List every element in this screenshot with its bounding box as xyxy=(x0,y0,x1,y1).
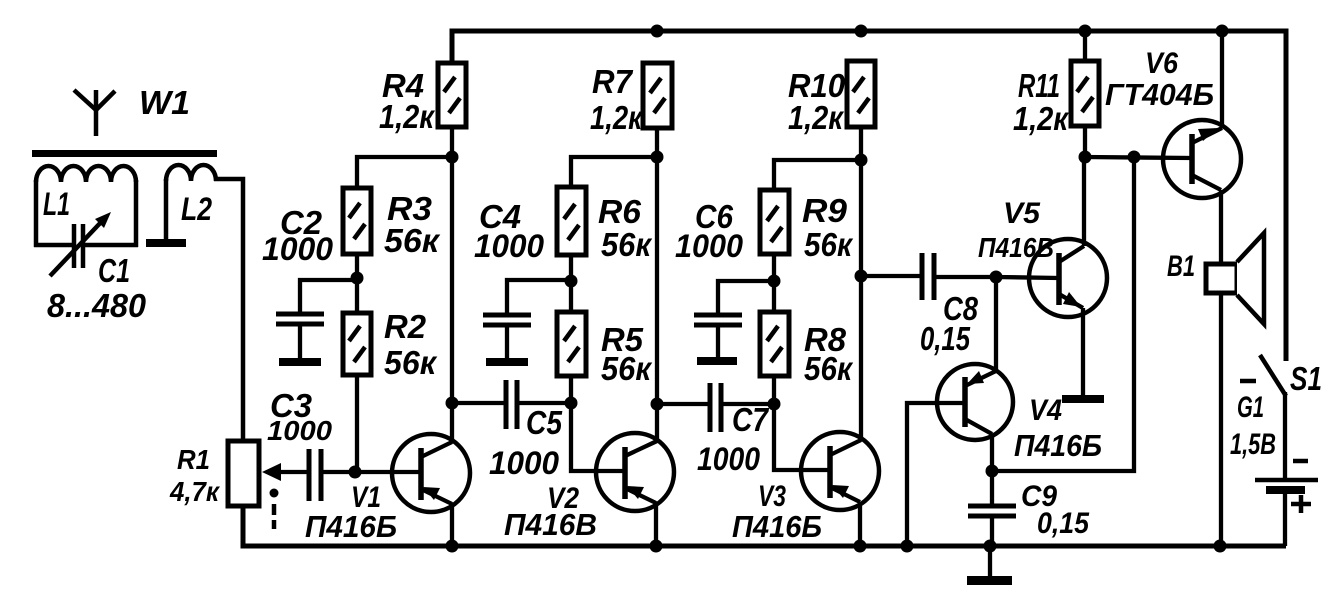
ground below rail xyxy=(988,546,992,577)
svg-text:R11: R11 xyxy=(1018,67,1060,104)
capacitor C4 1000 (to ground) xyxy=(507,280,571,313)
svg-text:ГТ404Б: ГТ404Б xyxy=(1105,77,1214,112)
capacitor C7 1000 (coupling) xyxy=(657,402,708,406)
loudspeaker B1 xyxy=(1206,264,1237,293)
transistor V2 P416B xyxy=(596,433,674,511)
capacitor C8 0,15 (coupling) xyxy=(861,274,920,278)
svg-text:56к: 56к xyxy=(384,222,441,259)
svg-text:1,2к: 1,2к xyxy=(590,99,644,136)
svg-text:56к: 56к xyxy=(601,226,653,263)
transistor V3 P416B xyxy=(801,432,879,510)
svg-text:V4: V4 xyxy=(1029,394,1062,427)
svg-text:C1: C1 xyxy=(98,252,130,289)
ground under L2 xyxy=(146,239,186,247)
capacitor C9 0,15 xyxy=(990,471,994,504)
ground under C6 xyxy=(697,357,737,365)
svg-text:П416Б: П416Б xyxy=(305,509,397,544)
svg-text:R1: R1 xyxy=(177,444,210,475)
capacitor C3 1000 (coupling) xyxy=(309,449,321,501)
ground under C4 xyxy=(486,358,528,366)
svg-text:П416В: П416В xyxy=(978,232,1054,263)
ground under V5 xyxy=(1081,308,1085,397)
capacitor C2 1000 (to ground) xyxy=(300,280,357,313)
svg-text:V5: V5 xyxy=(1003,197,1041,230)
resistor R3 56k xyxy=(343,188,371,254)
resistor R9 56k xyxy=(760,190,789,254)
svg-text:56к: 56к xyxy=(804,350,854,387)
battery G1 1,5V xyxy=(1240,379,1256,384)
wire base V6 xyxy=(1085,157,1192,158)
svg-text:56к: 56к xyxy=(384,344,438,381)
wire to base V2 xyxy=(571,403,625,471)
switch S1 xyxy=(1260,355,1286,396)
svg-text:П416В: П416В xyxy=(504,507,597,542)
capacitor C5 1000 (coupling) xyxy=(452,401,504,405)
resistor R5 56k xyxy=(557,312,586,376)
svg-text:C7: C7 xyxy=(732,401,769,438)
wire collector line V2 xyxy=(655,128,659,441)
potentiometer R1 4,7k xyxy=(228,441,259,506)
svg-text:R7: R7 xyxy=(592,63,634,100)
resistor R4 1,2k xyxy=(438,63,466,127)
resistor R11 1,2k xyxy=(1071,61,1099,126)
resistor R2 56k xyxy=(343,313,371,375)
wire V4 collector to V6 base line xyxy=(992,157,1134,471)
ground under C2 xyxy=(279,358,321,366)
node base V1 xyxy=(355,470,421,474)
svg-text:1000: 1000 xyxy=(489,445,559,481)
svg-text:C5: C5 xyxy=(526,404,563,441)
wire top supply rail xyxy=(452,31,1286,361)
svg-text:1,5В: 1,5В xyxy=(1230,428,1276,461)
svg-text:V6: V6 xyxy=(1145,47,1178,80)
svg-text:П416Б: П416Б xyxy=(732,509,822,544)
wire collector line V3 xyxy=(859,127,863,440)
wire to base V3 xyxy=(774,404,830,470)
resistor R7 1,2k xyxy=(643,63,672,128)
svg-text:1000: 1000 xyxy=(267,415,332,446)
svg-text:1000: 1000 xyxy=(675,228,743,264)
ferrite rod core xyxy=(32,150,217,157)
svg-text:L1: L1 xyxy=(43,186,70,222)
resistor R8 56k xyxy=(760,312,789,376)
wire bottom common rail xyxy=(243,506,1286,546)
inductor L2 xyxy=(166,165,243,442)
svg-text:1,2к: 1,2к xyxy=(788,99,845,136)
variable capacitor C1 xyxy=(50,219,104,276)
svg-text:R9: R9 xyxy=(802,192,848,229)
transistor V6 GT404B xyxy=(1163,120,1241,198)
svg-text:1,2к: 1,2к xyxy=(379,98,436,135)
svg-text:0,15: 0,15 xyxy=(920,320,970,357)
antenna W1 xyxy=(74,90,115,136)
svg-text:56к: 56к xyxy=(804,226,854,263)
svg-text:G1: G1 xyxy=(1237,391,1264,424)
resistor R10 1,2k xyxy=(847,61,875,127)
svg-text:1,2к: 1,2к xyxy=(1013,100,1070,137)
svg-text:R6: R6 xyxy=(598,193,642,230)
svg-text:8...480: 8...480 xyxy=(47,287,147,324)
transistor V5 P416B xyxy=(1029,239,1107,317)
svg-text:1000: 1000 xyxy=(262,231,333,267)
svg-text:S1: S1 xyxy=(1290,360,1322,397)
capacitor C6 1000 (to ground) xyxy=(718,281,774,313)
svg-text:56к: 56к xyxy=(601,350,653,387)
svg-text:1000: 1000 xyxy=(474,228,544,264)
wire collector line V1 xyxy=(450,127,454,442)
transistor V4 P416B xyxy=(937,364,1013,440)
svg-text:0,15: 0,15 xyxy=(1037,507,1090,540)
svg-text:R2: R2 xyxy=(384,308,427,345)
svg-text:4,7к: 4,7к xyxy=(169,476,221,507)
svg-text:B1: B1 xyxy=(1167,250,1195,283)
resistor R6 56k xyxy=(557,187,586,255)
inductor L1 xyxy=(34,166,138,247)
svg-text:L2: L2 xyxy=(181,191,212,227)
svg-text:1000: 1000 xyxy=(697,441,760,477)
svg-text:П416Б: П416Б xyxy=(1014,428,1102,463)
transistor V1 P416B xyxy=(392,434,470,512)
svg-text:W1: W1 xyxy=(139,84,190,121)
